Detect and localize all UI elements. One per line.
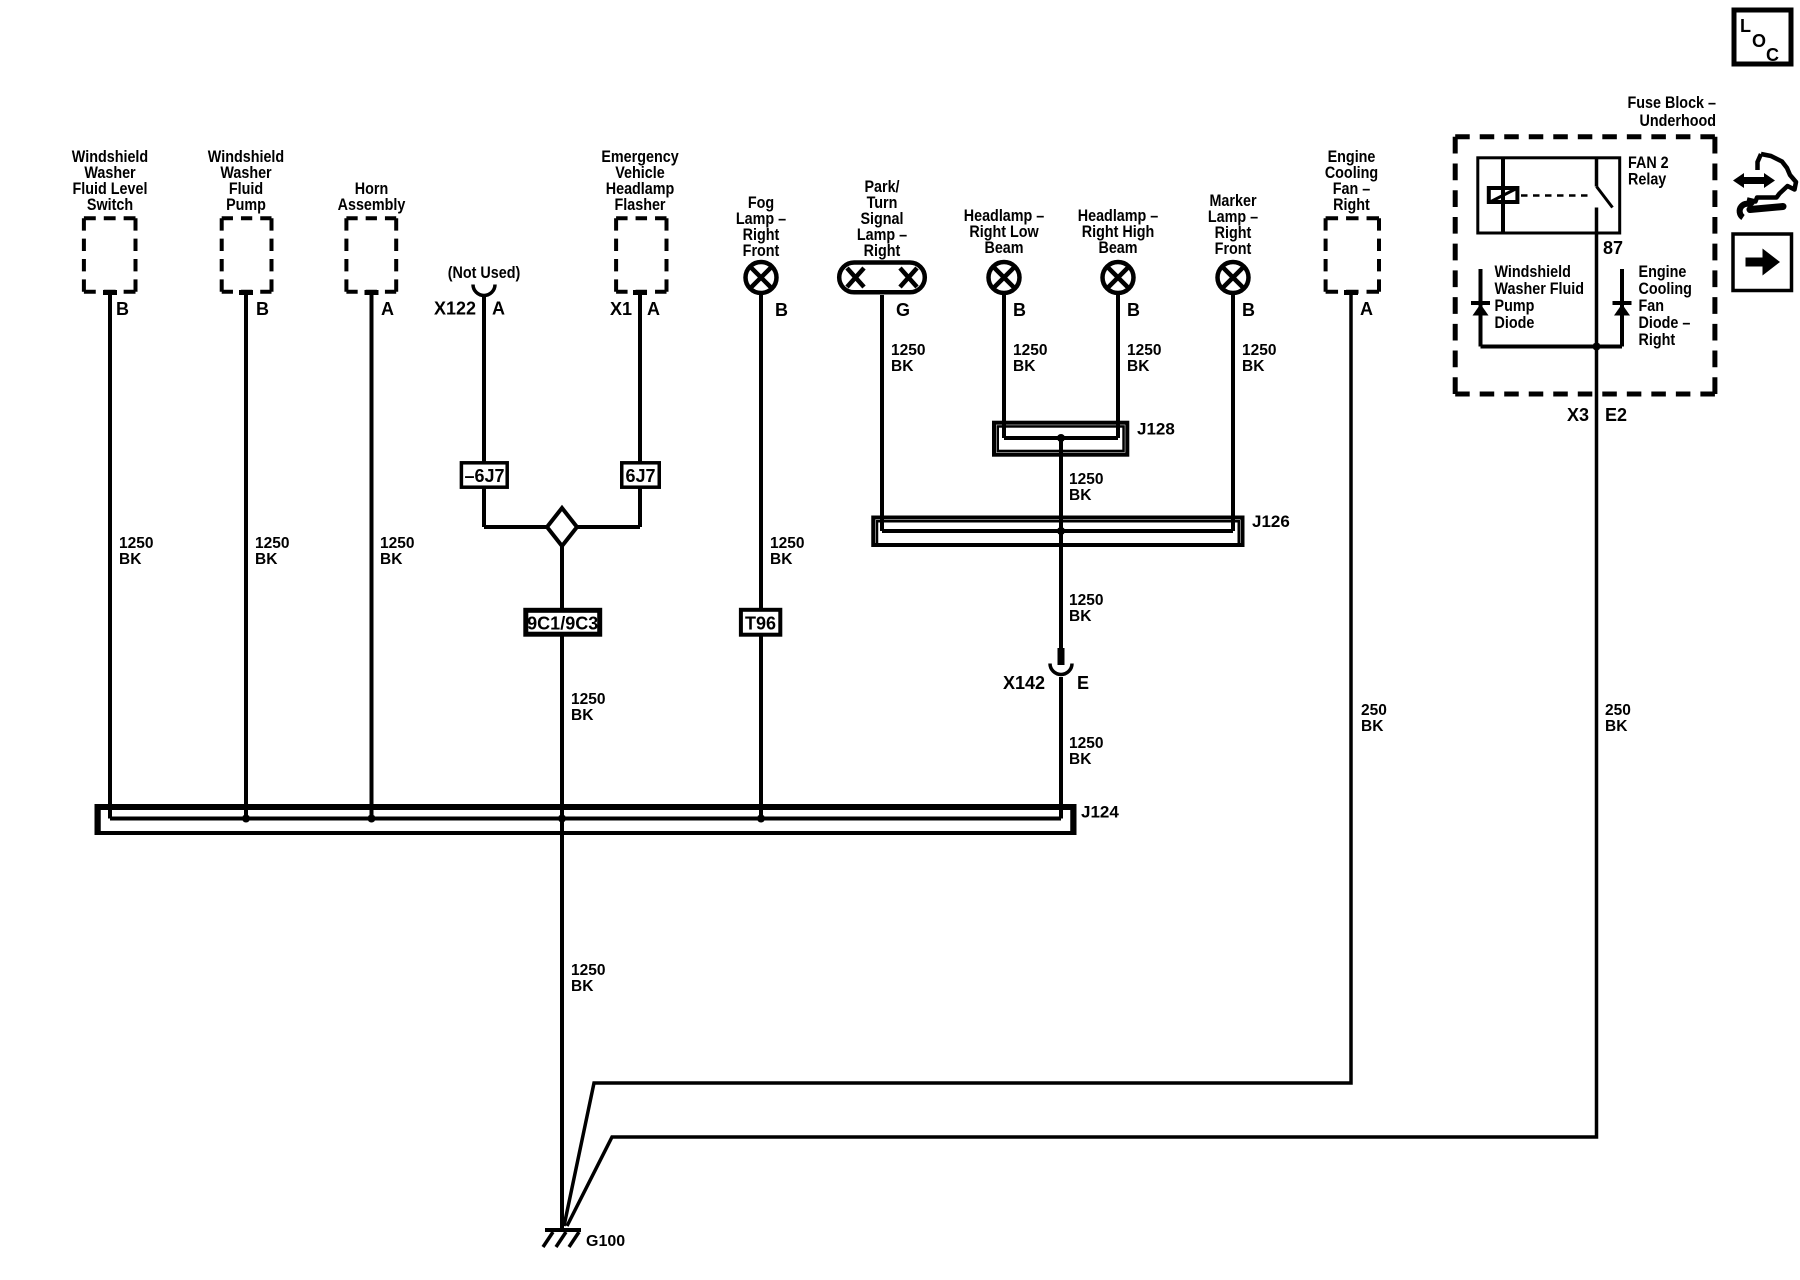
svg-text:250: 250 <box>1361 702 1387 719</box>
horn assembly box <box>346 216 396 220</box>
svg-text:9C1/9C3: 9C1/9C3 <box>527 614 598 634</box>
svg-text:BK: BK <box>891 358 914 375</box>
svg-text:B: B <box>1127 300 1140 320</box>
wire from X142 to J124 <box>1059 677 1063 819</box>
svg-text:BK: BK <box>1361 718 1384 735</box>
engine cooling fan pin stub <box>1344 290 1358 295</box>
svg-text:A: A <box>1360 299 1373 319</box>
svg-text:Switch: Switch <box>87 196 133 214</box>
svg-text:Front: Front <box>743 242 780 260</box>
wire from -6J7 down <box>482 487 486 527</box>
fuse 6J7 box <box>622 463 660 487</box>
svg-text:C: C <box>1766 45 1779 65</box>
svg-text:A: A <box>381 299 394 319</box>
horn assembly pin stub <box>365 290 379 295</box>
svg-text:1250: 1250 <box>891 342 925 359</box>
svg-text:1250: 1250 <box>1069 592 1103 609</box>
wire from diamond to 9C1/9C3 <box>560 546 564 610</box>
wire joining diodes <box>1481 345 1623 349</box>
wire from low beam to J128 <box>1002 293 1006 438</box>
connector T96 box <box>741 610 780 635</box>
svg-text:Pump: Pump <box>1495 297 1535 315</box>
service info icon (double arrow, outline, wrench) <box>1733 173 1775 188</box>
svg-text:Right: Right <box>864 242 901 260</box>
svg-text:Fuse Block –: Fuse Block – <box>1627 94 1716 112</box>
main ground wire from 9C1/9C3 to G100 <box>560 637 564 1231</box>
svg-text:BK: BK <box>255 551 278 568</box>
forward arrow icon <box>1733 234 1792 291</box>
svg-text:Right: Right <box>1639 331 1676 349</box>
splice pack J128 <box>994 423 1127 455</box>
svg-text:X3: X3 <box>1567 405 1589 425</box>
svg-text:J126: J126 <box>1252 512 1290 531</box>
park/turn signal lamp symbol <box>839 263 925 293</box>
ground G100 symbol <box>545 1228 581 1232</box>
svg-text:Relay: Relay <box>1628 171 1667 189</box>
svg-text:BK: BK <box>770 551 793 568</box>
wire from fog lamp to T96 <box>759 293 763 608</box>
svg-text:FAN 2: FAN 2 <box>1628 154 1669 172</box>
windshield washer fluid pump box <box>222 216 272 220</box>
svg-text:(Not Used): (Not Used) <box>448 264 521 282</box>
junction dot J124 fog <box>757 815 765 823</box>
svg-text:B: B <box>116 299 129 319</box>
svg-text:1250: 1250 <box>119 535 153 552</box>
connector X122 symbol <box>473 285 495 296</box>
svg-text:A: A <box>492 299 505 319</box>
LOC page icon <box>1734 10 1791 64</box>
svg-text:X1: X1 <box>610 299 632 319</box>
svg-text:Diode –: Diode – <box>1639 314 1691 332</box>
svg-text:250: 250 <box>1605 702 1631 719</box>
svg-text:1250: 1250 <box>571 962 605 979</box>
svg-text:E: E <box>1077 673 1089 693</box>
fuse -6J7 box <box>461 463 507 487</box>
windshield washer fluid level switch box <box>84 216 136 220</box>
relay coil <box>1489 188 1518 202</box>
svg-text:Pump: Pump <box>226 196 266 214</box>
svg-text:B: B <box>256 299 269 319</box>
relay FAN 2 box <box>1478 158 1620 233</box>
windshield washer fluid level switch pin stub <box>103 290 117 295</box>
svg-text:1250: 1250 <box>1127 342 1161 359</box>
svg-text:J128: J128 <box>1137 420 1175 439</box>
junction dot J124 washer pump <box>242 815 250 823</box>
svg-text:BK: BK <box>1069 608 1092 625</box>
wire from fluid level switch to J124 <box>108 292 112 819</box>
svg-text:–6J7: –6J7 <box>464 466 504 486</box>
svg-text:1250: 1250 <box>770 535 804 552</box>
svg-text:BK: BK <box>571 978 594 995</box>
svg-text:BK: BK <box>1127 358 1150 375</box>
svg-text:Flasher: Flasher <box>614 196 665 214</box>
wire from X122 to fuse 6J7 <box>482 296 486 463</box>
svg-text:BK: BK <box>571 707 594 724</box>
windshield washer fluid pump diode <box>1479 269 1483 347</box>
svg-text:BK: BK <box>119 551 142 568</box>
wire from flasher X1 to fuse 6J7 <box>638 292 642 463</box>
fog lamp symbol <box>746 262 777 293</box>
svg-text:B: B <box>1242 300 1255 320</box>
wire from high beam to J128 <box>1116 293 1120 438</box>
flasher pin stub <box>633 290 647 295</box>
svg-text:BK: BK <box>1605 718 1628 735</box>
svg-text:Engine: Engine <box>1639 263 1687 281</box>
junction dot at diode bus <box>1593 343 1601 351</box>
wire from J126 to X142 <box>1059 531 1063 649</box>
svg-text:BK: BK <box>1242 358 1265 375</box>
wire from washer fluid pump to J124 <box>244 292 248 819</box>
svg-text:1250: 1250 <box>255 535 289 552</box>
svg-text:1250: 1250 <box>1013 342 1047 359</box>
wire from relay pin 87 to ground <box>567 233 1597 1226</box>
splice diamond <box>547 508 577 546</box>
wire from 6J7 down <box>638 487 642 527</box>
svg-text:T96: T96 <box>745 614 776 634</box>
connector X142 symbol <box>1058 648 1065 665</box>
svg-text:Beam: Beam <box>984 239 1023 257</box>
svg-text:Beam: Beam <box>1098 239 1137 257</box>
svg-text:6J7: 6J7 <box>625 466 655 486</box>
junction dot in J128 <box>1057 434 1065 442</box>
svg-text:Windshield: Windshield <box>1495 263 1571 281</box>
svg-text:Diode: Diode <box>1495 314 1535 332</box>
marker lamp symbol <box>1218 262 1249 293</box>
svg-text:1250: 1250 <box>1069 471 1103 488</box>
wire from marker lamp to J126 <box>1231 293 1235 531</box>
windshield washer fluid pump pin stub <box>239 290 253 295</box>
splice pack J124 <box>97 806 1075 833</box>
svg-text:1250: 1250 <box>1069 735 1103 752</box>
svg-text:BK: BK <box>1069 487 1092 504</box>
wire from T96 to J124 <box>759 637 763 819</box>
svg-text:Assembly: Assembly <box>338 196 406 214</box>
svg-text:E2: E2 <box>1605 405 1627 425</box>
svg-text:1250: 1250 <box>1242 342 1276 359</box>
svg-text:BK: BK <box>1069 751 1092 768</box>
wire from J128 to J126 <box>1059 438 1063 531</box>
svg-text:B: B <box>775 300 788 320</box>
fuse block underhood box <box>1455 134 1715 139</box>
svg-text:Right: Right <box>1333 196 1370 214</box>
svg-text:Front: Front <box>1215 240 1252 258</box>
svg-text:BK: BK <box>380 551 403 568</box>
svg-text:Cooling: Cooling <box>1639 280 1692 298</box>
svg-text:J124: J124 <box>1081 803 1119 822</box>
svg-text:G: G <box>896 300 910 320</box>
svg-text:B: B <box>1013 300 1026 320</box>
engine cooling fan diode right <box>1620 269 1624 347</box>
svg-text:X122: X122 <box>434 299 476 319</box>
junction dot J124 horn <box>368 815 376 823</box>
svg-text:Underhood: Underhood <box>1640 112 1716 130</box>
headlamp low beam symbol <box>989 262 1020 293</box>
svg-text:BK: BK <box>1013 358 1036 375</box>
junction dot in J126 <box>1057 527 1065 535</box>
svg-text:Fan: Fan <box>1639 297 1665 315</box>
emergency vehicle headlamp flasher box <box>616 216 666 220</box>
relay actuation dashed link <box>1521 194 1589 197</box>
headlamp high beam symbol <box>1103 262 1134 293</box>
junction dot J124 main <box>558 815 566 823</box>
relay switch <box>1595 158 1599 187</box>
horizontal wire joining 6J7 branches <box>484 525 640 529</box>
wire from park/turn lamp to J126 <box>880 295 884 531</box>
svg-text:1250: 1250 <box>571 691 605 708</box>
svg-text:L: L <box>1740 16 1751 36</box>
splice pack J126 <box>873 518 1242 546</box>
svg-text:X142: X142 <box>1003 673 1045 693</box>
svg-text:Washer Fluid: Washer Fluid <box>1495 280 1585 298</box>
relay divider line <box>1501 158 1505 233</box>
engine cooling fan box <box>1326 216 1379 220</box>
svg-text:1250: 1250 <box>380 535 414 552</box>
wire from engine cooling fan to ground <box>564 292 1351 1226</box>
svg-text:G100: G100 <box>586 1233 625 1250</box>
svg-text:O: O <box>1752 31 1766 51</box>
svg-text:A: A <box>647 299 660 319</box>
connector 9C1/9C3 box <box>526 610 600 634</box>
svg-text:87: 87 <box>1603 238 1623 258</box>
wire from horn assembly to J124 <box>370 292 374 819</box>
